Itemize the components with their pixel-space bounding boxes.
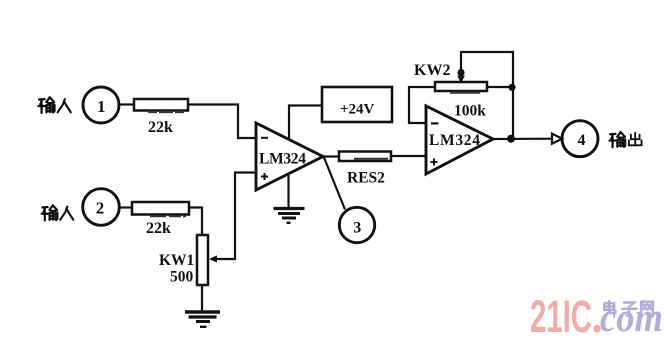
svg-text:2: 2 <box>96 198 105 217</box>
svg-text:1: 1 <box>97 97 106 116</box>
svg-text:500: 500 <box>170 269 194 286</box>
svg-text:KW2: KW2 <box>414 62 450 79</box>
svg-text:100k: 100k <box>454 103 486 120</box>
svg-text:22k: 22k <box>148 119 173 136</box>
svg-text:LM324: LM324 <box>259 151 306 168</box>
svg-text:+24V: +24V <box>340 102 375 118</box>
svg-text:22k: 22k <box>146 220 171 237</box>
svg-text:KW1: KW1 <box>159 252 194 269</box>
svg-text:3: 3 <box>353 220 361 237</box>
svg-text:21IC: 21IC <box>530 291 592 342</box>
svg-text:RES2: RES2 <box>347 170 385 187</box>
svg-text:4: 4 <box>578 132 586 149</box>
svg-text:LM324: LM324 <box>429 132 480 149</box>
